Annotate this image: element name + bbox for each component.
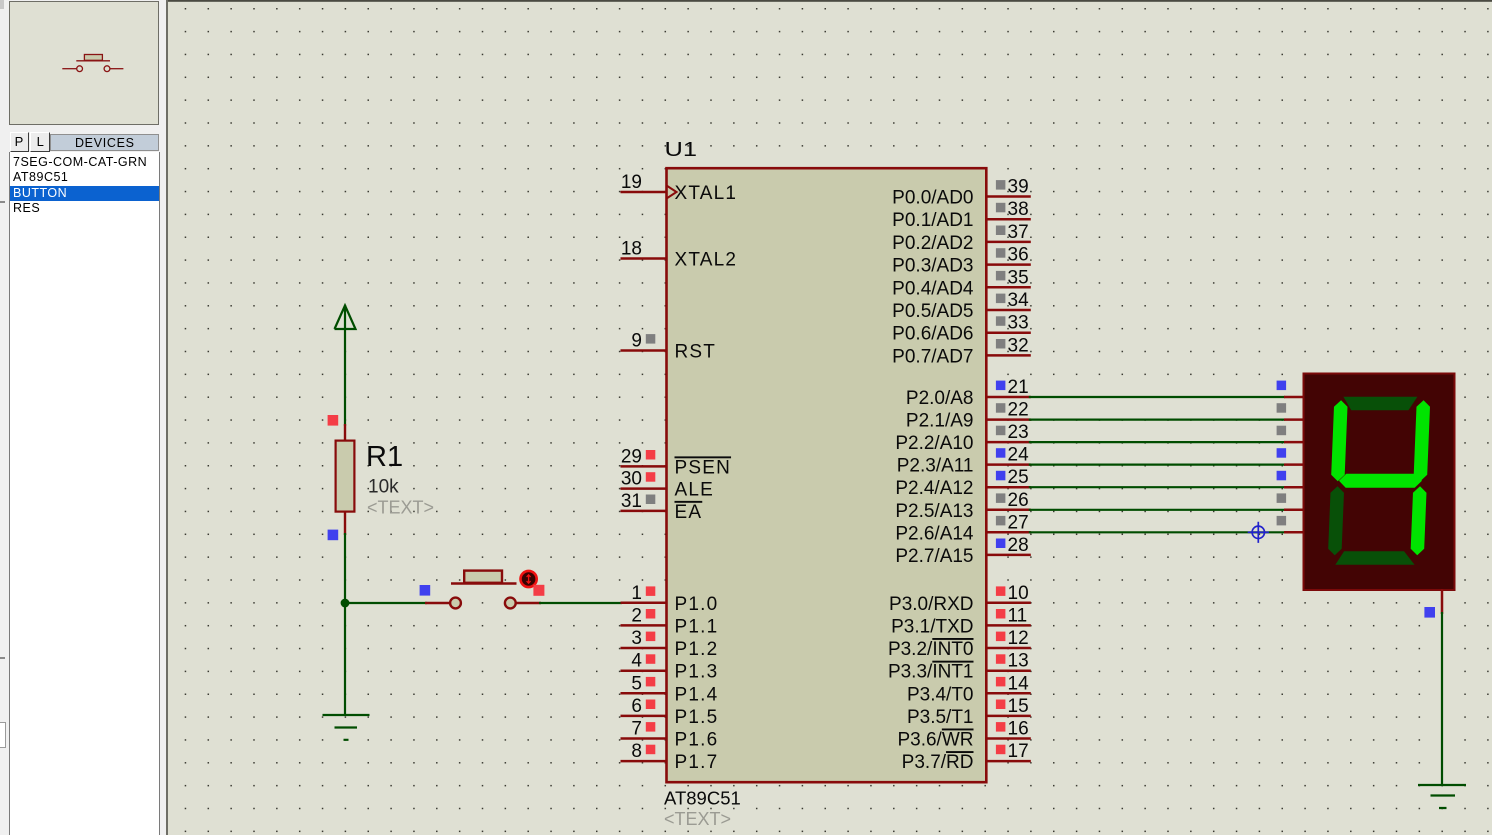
- svg-text:R1: R1: [366, 441, 403, 473]
- display pin stub seg 0: [1284, 396, 1304, 399]
- U1 pin 8 P1.7: [621, 741, 719, 773]
- U1 pin 38 P0.1/AD1: [892, 199, 1031, 231]
- svg-text:1: 1: [631, 583, 642, 604]
- U1 pin 31 EA: [621, 491, 703, 523]
- svg-text:16: 16: [1008, 719, 1029, 740]
- display pin stub seg 5: [1284, 509, 1304, 512]
- display ground pin stub: [1441, 589, 1444, 614]
- wire power to R1: [344, 328, 346, 426]
- svg-text:24: 24: [1008, 445, 1030, 466]
- svg-text:8: 8: [631, 741, 642, 762]
- svg-text:P0.1/AD1: P0.1/AD1: [892, 210, 973, 231]
- svg-text:P1.6: P1.6: [675, 730, 719, 751]
- ground symbol left: [323, 715, 370, 740]
- svg-text:34: 34: [1008, 290, 1030, 311]
- svg-text:<TEXT>: <TEXT>: [664, 809, 731, 829]
- svg-text:P2.2/A10: P2.2/A10: [895, 433, 973, 454]
- U1 pin 19 XTAL1: [621, 172, 738, 204]
- svg-text:P1.1: P1.1: [675, 616, 719, 637]
- svg-text:32: 32: [1008, 335, 1029, 356]
- segment f (lit): [1331, 400, 1348, 481]
- wire P2.3 to display: [1029, 464, 1285, 466]
- svg-text:5: 5: [631, 673, 642, 694]
- svg-text:P1.0: P1.0: [675, 594, 719, 615]
- device list box: [9, 152, 160, 835]
- svg-text:37: 37: [1008, 222, 1029, 243]
- U1 pin 1 P1.0: [621, 583, 719, 615]
- svg-text:P2.5/A13: P2.5/A13: [895, 501, 973, 522]
- node marker square at display pin 5: [1277, 493, 1287, 503]
- U1 pin 25 P2.4/A12: [895, 467, 1030, 499]
- DEVICES header: [50, 134, 159, 152]
- svg-text:13: 13: [1008, 651, 1029, 672]
- display pin stub seg 4: [1284, 486, 1304, 489]
- U1 pin 14 P3.4/T0: [907, 673, 1031, 705]
- svg-text:33: 33: [1008, 313, 1029, 334]
- U1 pin 22 P2.1/A9: [906, 400, 1031, 432]
- svg-text:22: 22: [1008, 400, 1029, 421]
- svg-text:27: 27: [1008, 512, 1029, 533]
- U1 pin 9 RST: [621, 331, 717, 363]
- U1 pin 28 P2.7/A15: [895, 535, 1030, 567]
- svg-text:P2.7/A15: P2.7/A15: [895, 546, 973, 567]
- wire P2.4 to display: [1029, 486, 1285, 488]
- svg-text:P0.2/AD2: P0.2/AD2: [892, 233, 973, 254]
- wire P2.1 to display: [1029, 419, 1285, 421]
- svg-text:3: 3: [631, 628, 642, 649]
- svg-text:AT89C51: AT89C51: [664, 788, 741, 809]
- U1 pin 6 P1.5: [621, 696, 719, 728]
- 7-segment digit segments (showing 4): [1328, 397, 1431, 565]
- U1 pin 3 P1.2: [621, 628, 719, 660]
- svg-text:6: 6: [631, 696, 642, 717]
- U1 pin 5 P1.4: [621, 673, 719, 705]
- node marker blue square at R1 bottom: [328, 530, 339, 541]
- U1 pin 2 P1.1: [621, 605, 719, 637]
- ground symbol right: [1418, 785, 1466, 808]
- svg-text:P2.1/A9: P2.1/A9: [906, 411, 974, 432]
- node marker blue square at display ground: [1424, 607, 1435, 618]
- svg-text:31: 31: [621, 491, 642, 512]
- svg-text:7: 7: [631, 719, 642, 740]
- svg-text:29: 29: [621, 446, 642, 467]
- wire P2.2 to display: [1029, 441, 1285, 443]
- overview preview pane: [9, 1, 159, 125]
- svg-text:19: 19: [621, 172, 642, 193]
- svg-text:30: 30: [621, 469, 642, 490]
- op-amp-style IC body U1: [667, 168, 987, 782]
- svg-text:P3.4/T0: P3.4/T0: [907, 684, 974, 705]
- display pin stub seg 3: [1284, 463, 1304, 466]
- svg-text:P0.4/AD4: P0.4/AD4: [892, 278, 974, 299]
- svg-text:26: 26: [1008, 490, 1029, 511]
- svg-text:23: 23: [1008, 422, 1029, 443]
- selected item BUTTON: [10, 186, 159, 202]
- U1 pin 16 P3.6/WR: [897, 719, 1030, 751]
- display pin stub seg 2: [1284, 441, 1304, 444]
- svg-text:36: 36: [1008, 245, 1029, 266]
- node marker square at display pin 2: [1277, 426, 1287, 436]
- node marker square at display pin 4: [1277, 471, 1287, 481]
- wire junction to button: [344, 602, 427, 604]
- node marker red square at R1 top: [328, 415, 339, 426]
- canvas top border: [168, 0, 1492, 2]
- svg-text:2: 2: [631, 605, 642, 626]
- svg-text:<TEXT>: <TEXT>: [367, 498, 434, 518]
- svg-text:P1.5: P1.5: [675, 707, 719, 728]
- svg-text:P0.6/AD6: P0.6/AD6: [892, 324, 973, 345]
- svg-text:P0.7/AD7: P0.7/AD7: [892, 346, 973, 367]
- wire R1 to junction: [344, 533, 346, 604]
- wire P2.6 to display: [1029, 531, 1285, 533]
- wire cursor crosshair: [1248, 522, 1269, 543]
- svg-text:14: 14: [1008, 673, 1030, 694]
- XTAL1 clock symbol: [667, 186, 677, 199]
- svg-text:EA: EA: [675, 502, 703, 523]
- svg-text:P3.6/WR: P3.6/WR: [897, 730, 973, 751]
- wire P2.0 to display: [1029, 396, 1285, 398]
- U1 pin 27 P2.6/A14: [895, 512, 1030, 544]
- svg-text:15: 15: [1008, 696, 1029, 717]
- svg-text:9: 9: [631, 331, 642, 352]
- svg-text:17: 17: [1008, 741, 1029, 762]
- svg-text:P2.4/A12: P2.4/A12: [895, 478, 973, 499]
- wire display to ground: [1441, 612, 1443, 785]
- U1 pin 15 P3.5/T1: [907, 696, 1031, 728]
- svg-text:P1.7: P1.7: [675, 752, 719, 773]
- U1 pin 18 XTAL2: [621, 239, 738, 271]
- P button: [10, 132, 29, 152]
- U1 pin 39 P0.0/AD0: [892, 177, 1031, 209]
- U1 pin 4 P1.3: [621, 651, 719, 683]
- wire P2.5 to display: [1029, 509, 1285, 511]
- svg-text:P0.3/AD3: P0.3/AD3: [892, 256, 973, 277]
- node marker square at display pin 3: [1277, 448, 1287, 458]
- segment b (lit): [1413, 400, 1430, 481]
- svg-text:XTAL1: XTAL1: [675, 183, 738, 204]
- junction node: [341, 599, 350, 608]
- segment c (lit): [1410, 486, 1426, 555]
- U1 pin 32 P0.7/AD7: [892, 335, 1031, 367]
- sidebar/canvas separator: [166, 0, 168, 835]
- node marker square at display pin 0: [1277, 381, 1287, 391]
- button (switch): [425, 571, 541, 609]
- svg-text:P2.0/A8: P2.0/A8: [906, 388, 974, 409]
- U1 pin 36 P0.3/AD3: [892, 245, 1031, 277]
- preview button symbol: [9, 1, 159, 124]
- display pin stub seg 1: [1284, 418, 1304, 421]
- svg-text:10: 10: [1008, 583, 1029, 604]
- segment d (off): [1335, 551, 1415, 565]
- svg-text:P0.5/AD5: P0.5/AD5: [892, 301, 973, 322]
- svg-text:P3.3/INT1: P3.3/INT1: [888, 662, 974, 683]
- resistor R1: [336, 424, 355, 535]
- display pin stub seg 6: [1284, 531, 1304, 534]
- U1 pin 11 P3.1/TXD: [891, 605, 1031, 637]
- svg-text:XTAL2: XTAL2: [675, 250, 738, 271]
- node marker square at display pin 1: [1277, 403, 1287, 413]
- svg-text:U1: U1: [665, 139, 698, 161]
- svg-text:10k: 10k: [368, 477, 399, 498]
- U1 pin 35 P0.4/AD4: [892, 267, 1031, 299]
- U1 pin 7 P1.6: [621, 719, 719, 751]
- svg-text:35: 35: [1008, 267, 1029, 288]
- svg-text:P3.0/RXD: P3.0/RXD: [889, 594, 973, 615]
- U1 pin 24 P2.3/A11: [897, 445, 1031, 477]
- U1 pin 23 P2.2/A10: [895, 422, 1030, 454]
- U1 pin 29 PSEN: [621, 446, 732, 478]
- U1 pin 13 P3.3/INT1: [888, 651, 1031, 683]
- edge tick marks: [0, 201, 5, 203]
- svg-text:P2.3/A11: P2.3/A11: [897, 456, 974, 477]
- svg-text:P3.2/INT0: P3.2/INT0: [888, 639, 974, 660]
- U1 pin 21 P2.0/A8: [906, 377, 1031, 409]
- U1 pin 37 P0.2/AD2: [892, 222, 1031, 254]
- segment e (off): [1328, 486, 1344, 555]
- node marker red square right of button: [533, 585, 544, 596]
- wire button to U1 pin1: [539, 602, 622, 604]
- svg-text:11: 11: [1008, 605, 1028, 626]
- 7-segment display body: [1304, 374, 1455, 591]
- svg-text:P1.3: P1.3: [675, 662, 719, 683]
- U1 pin 26 P2.5/A13: [895, 490, 1030, 522]
- U1 pin 17 P3.7/RD: [902, 741, 1031, 773]
- svg-text:P3.7/RD: P3.7/RD: [902, 752, 974, 773]
- svg-text:P3.1/TXD: P3.1/TXD: [891, 616, 973, 637]
- svg-text:P1.4: P1.4: [675, 684, 719, 705]
- power symbol VCC: [335, 305, 356, 329]
- U1 pin 34 P0.5/AD5: [892, 290, 1031, 322]
- svg-text:28: 28: [1008, 535, 1029, 556]
- svg-text:18: 18: [621, 239, 642, 260]
- svg-text:P1.2: P1.2: [675, 639, 719, 660]
- svg-text:RST: RST: [675, 342, 717, 363]
- svg-text:39: 39: [1008, 177, 1029, 198]
- svg-text:P3.5/T1: P3.5/T1: [907, 707, 974, 728]
- svg-text:25: 25: [1008, 467, 1029, 488]
- svg-text:ALE: ALE: [675, 480, 715, 501]
- U1 pin 10 P3.0/RXD: [889, 583, 1031, 615]
- svg-text:PSEN: PSEN: [675, 457, 732, 478]
- svg-text:12: 12: [1008, 628, 1029, 649]
- U1 pin 33 P0.6/AD6: [892, 313, 1031, 345]
- svg-text:P2.6/A14: P2.6/A14: [895, 523, 974, 544]
- button actuator marker: [521, 571, 537, 587]
- segment a (off): [1343, 397, 1418, 411]
- node marker square at display pin 6: [1277, 516, 1287, 526]
- wire junction to ground: [344, 603, 346, 715]
- svg-text:38: 38: [1008, 199, 1029, 220]
- svg-text:4: 4: [631, 651, 642, 672]
- L button: [30, 132, 50, 152]
- node marker blue square left of button: [420, 585, 431, 596]
- segment g (lit): [1339, 474, 1423, 488]
- svg-text:21: 21: [1008, 377, 1029, 398]
- svg-text:P0.0/AD0: P0.0/AD0: [892, 188, 973, 209]
- U1 pin 30 ALE: [621, 469, 715, 501]
- U1 pin 12 P3.2/INT0: [888, 628, 1031, 660]
